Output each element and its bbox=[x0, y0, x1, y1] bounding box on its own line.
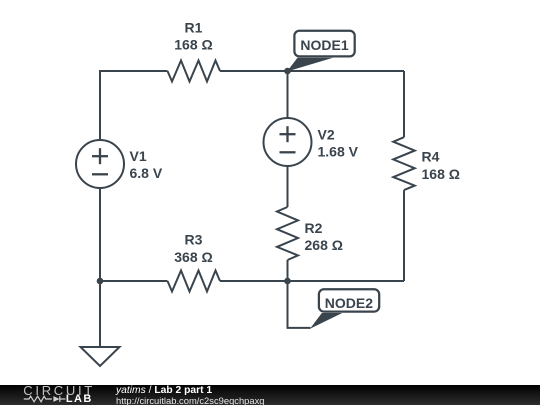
ground bbox=[81, 347, 120, 366]
wire left rail lower (V1 bottom to bottom wire) bbox=[99, 188, 101, 281]
label R4 value bbox=[422, 149, 460, 183]
svg-text:168 Ω: 168 Ω bbox=[174, 37, 212, 53]
svg-text:V2: V2 bbox=[318, 127, 335, 143]
label V1 value bbox=[130, 148, 163, 181]
label R2 value bbox=[305, 220, 343, 253]
node junction NODE2 dot bbox=[284, 278, 291, 285]
CircuitLab logo bbox=[20, 385, 120, 405]
resistor R3 bbox=[168, 271, 221, 292]
wire right rail bottom (R4 to bottom wire) bbox=[403, 190, 405, 281]
wire bottom-right (R3 to right rail) bbox=[220, 280, 404, 282]
wire ground stub bbox=[99, 281, 101, 347]
wire R2 bottom to bottom wire bbox=[287, 260, 289, 281]
node junction NODE1 dot bbox=[284, 68, 291, 75]
resistor R1 bbox=[168, 61, 221, 82]
voltage source V1 bbox=[76, 140, 124, 188]
svg-text:LAB: LAB bbox=[66, 393, 93, 405]
node NODE2 callout bbox=[310, 289, 379, 329]
footer bar bbox=[0, 385, 540, 405]
footer url text bbox=[116, 396, 265, 405]
svg-text:368 Ω: 368 Ω bbox=[174, 249, 212, 265]
wire top-right (R1 right lead to right rail top) bbox=[220, 70, 404, 72]
svg-text:NODE2: NODE2 bbox=[325, 295, 373, 311]
wire V2 bottom to R2 top bbox=[287, 166, 289, 207]
svg-text:1.68 V: 1.68 V bbox=[318, 144, 359, 160]
voltage source V2 bbox=[264, 118, 312, 166]
svg-text:R4: R4 bbox=[422, 149, 440, 165]
wire node2 stub bbox=[288, 281, 311, 328]
wire middle rail top (node1 to V2 top) bbox=[287, 71, 289, 118]
wire top-left (node1 rail, V1 top to R1 left lead) bbox=[100, 71, 168, 140]
svg-text:V1: V1 bbox=[130, 148, 147, 164]
svg-text:NODE1: NODE1 bbox=[300, 37, 348, 53]
node NODE1 callout bbox=[287, 31, 355, 72]
svg-text:6.8 V: 6.8 V bbox=[130, 165, 163, 181]
wire bottom-left (left rail to R3 left lead) bbox=[100, 280, 168, 282]
svg-text:R3: R3 bbox=[185, 232, 203, 248]
label R1 value bbox=[174, 20, 212, 53]
wire right rail top (to R4) bbox=[403, 71, 405, 137]
svg-text:R1: R1 bbox=[185, 20, 203, 36]
node junction bottom-left dot bbox=[97, 278, 104, 285]
resistor R2 bbox=[277, 207, 298, 260]
resistor R4 bbox=[393, 137, 415, 190]
footer title text bbox=[116, 386, 212, 395]
svg-text:268 Ω: 268 Ω bbox=[305, 237, 343, 253]
svg-text:168 Ω: 168 Ω bbox=[422, 166, 460, 182]
label V2 value bbox=[318, 127, 359, 160]
label R3 value bbox=[174, 232, 212, 266]
svg-text:R2: R2 bbox=[305, 220, 323, 236]
